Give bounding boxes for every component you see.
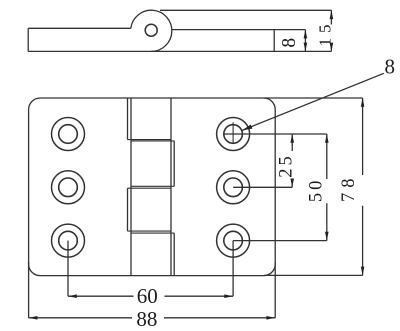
- hole top-right inner: [224, 125, 243, 144]
- plan view: knuckle segment 4 right edge: [173, 233, 175, 276]
- arrow dim25 down: [290, 179, 294, 188]
- extension down from bottom-right hole: [232, 241, 234, 297]
- arrow dim50 down: [325, 232, 329, 241]
- svg-text:25: 25: [276, 153, 296, 178]
- hole top-left outer: [52, 118, 85, 151]
- arrow dim60 left: [68, 294, 77, 298]
- hole bottom-left inner: [59, 231, 78, 250]
- plan view: knuckle joint 3: [128, 231, 175, 233]
- side view: right leaf top edge plus extension for dim 8: [172, 29, 306, 31]
- arrow dim8 up: [304, 30, 308, 39]
- side view: bottom edge of both leaves plus extension to dim lines: [28, 50, 331, 52]
- plan view: knuckle joint 2: [128, 186, 175, 188]
- dim 25 line (gap for text): [291, 134, 293, 187]
- svg-text:88: 88: [136, 307, 157, 331]
- extension from bottom-right hole: [233, 240, 327, 242]
- plan view: knuckle segment 2 right edge: [173, 141, 175, 186]
- dim 60 line (gap for text): [68, 295, 233, 297]
- arrow dim88 left: [29, 316, 38, 320]
- extension down from bottom-left hole: [67, 241, 69, 297]
- top-right hole vertical center line: [232, 122, 234, 144]
- svg-text:15: 15: [316, 20, 335, 47]
- plan view: knuckle segment 1 left edge: [127, 98, 129, 140]
- extension from plate bottom edge for dim 78: [264, 274, 363, 276]
- dim 15 dimension line (gap for text): [330, 10, 332, 51]
- extension from mid-right hole: [233, 186, 292, 188]
- top-right hole horizontal center line + extension to dim 25/50: [225, 133, 327, 135]
- side view: left leaf top edge: [28, 27, 131, 29]
- dim 15 top extension line from knuckle top: [160, 9, 331, 11]
- hole bottom-right outer: [217, 224, 250, 257]
- dim 8 (thickness) dimension line: [304, 30, 306, 52]
- side view: pin hole: [145, 24, 157, 36]
- arrow dim78 down: [361, 267, 365, 276]
- hole mid-right inner: [224, 178, 243, 197]
- hole bottom-left outer: [52, 224, 85, 257]
- plan view: left leaf cut line: [130, 98, 132, 276]
- arrow dim25 up: [290, 134, 294, 143]
- svg-text:8: 8: [385, 54, 396, 78]
- extension down from plate left edge: [28, 262, 30, 318]
- dim 50 line (gap for text): [326, 134, 328, 241]
- hole bottom-right inner: [224, 231, 243, 250]
- dim 88 line (gap for text): [29, 317, 276, 319]
- hole top-left inner: [59, 125, 78, 144]
- svg-text:50: 50: [307, 178, 327, 203]
- hole top-right outer: [217, 118, 250, 151]
- hole mid-left inner: [59, 178, 78, 197]
- plan view: right leaf cut line: [170, 98, 172, 276]
- extension from plate top edge for dim 78: [264, 97, 363, 99]
- arrow dim60 right: [224, 294, 233, 298]
- side view: left leaf left end: [27, 28, 29, 51]
- plan view: plate outline: [29, 98, 276, 276]
- arrow dim88 right: [266, 316, 275, 320]
- arrow dim15 down: [330, 43, 334, 52]
- extension down from plate right edge: [274, 262, 276, 318]
- side view: right leaf end: [273, 30, 275, 52]
- plan view: knuckle joint 1: [128, 140, 175, 141]
- arrow dim50 up: [325, 134, 329, 143]
- svg-text:8: 8: [279, 38, 300, 48]
- arrow dim78 up: [361, 98, 365, 107]
- leader arrowhead at hole 8: [242, 125, 252, 131]
- svg-text:78: 78: [339, 173, 359, 202]
- svg-text:60: 60: [137, 284, 158, 308]
- hole mid-left outer: [52, 171, 85, 204]
- side view: knuckle curl outer arc: [131, 10, 172, 51]
- hole mid-right outer: [217, 171, 250, 204]
- arrow dim8 down: [304, 43, 308, 52]
- dim 78 line (gap for text): [362, 98, 364, 275]
- plan view: knuckle segment 3 left edge: [127, 188, 129, 231]
- leader line for hole diameter 8: [242, 73, 384, 130]
- arrow dim15 up: [330, 10, 334, 19]
